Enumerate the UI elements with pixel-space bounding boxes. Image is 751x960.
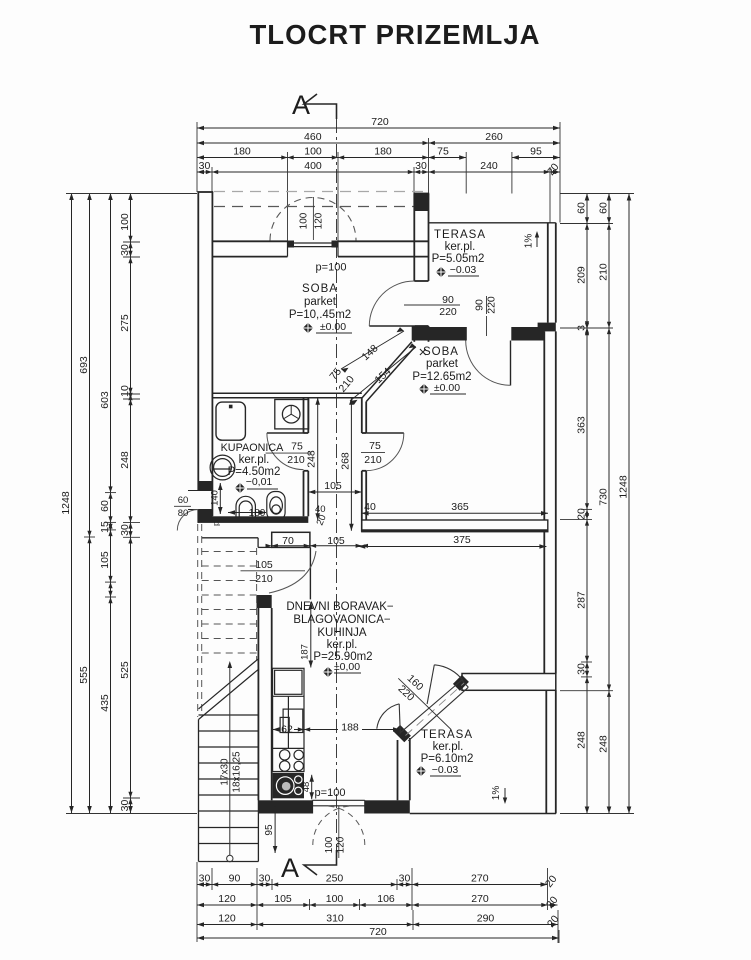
- dimension row top 30/400/30/240: [197, 171, 560, 173]
- svg-text:±0.00: ±0.00: [320, 321, 346, 333]
- door leaf swing upper: [427, 665, 434, 704]
- svg-text:1%: 1%: [524, 234, 535, 249]
- terrace top edge: [429, 222, 556, 224]
- svg-text:ker.pl.: ker.pl.: [445, 241, 476, 253]
- wall terrace bottom (90/220 opening): [429, 327, 467, 341]
- svg-text:30: 30: [259, 872, 271, 884]
- bidet: [267, 492, 285, 521]
- dimension column left 693/555: [89, 193, 91, 813]
- svg-text:P=10,.45m2: P=10,.45m2: [289, 309, 351, 321]
- svg-text:30: 30: [399, 872, 411, 884]
- svg-text:KUHINJA: KUHINJA: [317, 627, 367, 639]
- svg-text:105: 105: [274, 893, 292, 905]
- dim 187 kitchen: [310, 602, 312, 668]
- svg-text:1%: 1%: [491, 786, 502, 801]
- svg-text:40: 40: [364, 501, 376, 513]
- bathtub: [216, 402, 245, 440]
- svg-text:KUPAONICA: KUPAONICA: [221, 442, 285, 454]
- svg-text:105: 105: [324, 480, 342, 492]
- toilet: [236, 496, 255, 521]
- svg-text:100: 100: [324, 836, 335, 853]
- svg-text:400: 400: [304, 160, 322, 172]
- svg-text:120: 120: [336, 836, 347, 853]
- svg-text:693: 693: [78, 356, 90, 374]
- svg-text:±0,00: ±0,00: [334, 661, 360, 673]
- svg-text:210: 210: [255, 573, 273, 585]
- svg-text:220: 220: [486, 296, 498, 314]
- svg-text:TERASA: TERASA: [421, 729, 473, 741]
- svg-text:603: 603: [99, 391, 111, 409]
- door 90/220 of front room: leaf + arc: [369, 325, 414, 327]
- svg-text:248: 248: [306, 450, 318, 468]
- dim 248 vertical in hall: [317, 398, 319, 520]
- svg-text:209: 209: [575, 266, 587, 284]
- svg-text:250: 250: [326, 872, 344, 884]
- svg-text:1248: 1248: [60, 491, 72, 515]
- svg-text:270: 270: [471, 872, 489, 884]
- dimension column right 1248: [628, 194, 630, 814]
- dimension row bottom row3: [197, 924, 558, 926]
- svg-text:BLAGOVAONICA−: BLAGOVAONICA−: [293, 614, 391, 626]
- dimension row bottom row4 720: [197, 937, 559, 939]
- svg-text:188: 188: [341, 721, 359, 733]
- svg-text:p=100: p=100: [315, 787, 346, 799]
- dimension row bottom row1: [197, 884, 548, 886]
- svg-text:60: 60: [597, 202, 609, 214]
- svg-text:120: 120: [314, 212, 325, 229]
- svg-text:p=100: p=100: [316, 262, 347, 274]
- wall diagonal (hall / soba): [362, 342, 416, 402]
- svg-text:−0.03: −0.03: [432, 764, 459, 776]
- svg-text:75: 75: [291, 441, 303, 453]
- svg-text:248: 248: [597, 735, 609, 753]
- svg-text:90: 90: [442, 294, 454, 306]
- bathroom door: leaf + arc: [267, 432, 304, 434]
- dimension column right detail: [586, 194, 588, 814]
- section mark A top: [292, 90, 337, 120]
- svg-text:730: 730: [597, 488, 609, 506]
- svg-text:220: 220: [439, 306, 457, 318]
- svg-text:106: 106: [377, 893, 395, 905]
- wall middle (under soba 12.65): [362, 520, 548, 532]
- wall segment 70 under hall: [272, 532, 310, 547]
- wall bathroom bottom (solid): [198, 516, 308, 523]
- svg-text:60: 60: [178, 495, 189, 506]
- dim 48 stove: [311, 775, 313, 800]
- svg-text:180: 180: [249, 508, 266, 519]
- kitchen sink (black): [273, 773, 304, 799]
- svg-text:80: 80: [178, 508, 189, 519]
- svg-text:30: 30: [199, 872, 211, 884]
- svg-text:30: 30: [119, 800, 131, 812]
- svg-text:720: 720: [369, 926, 387, 938]
- svg-text:100: 100: [119, 213, 131, 231]
- svg-text:120: 120: [218, 912, 236, 924]
- svg-text:±0.00: ±0.00: [434, 382, 460, 394]
- svg-text:210: 210: [364, 454, 382, 466]
- wash basin: [210, 455, 235, 480]
- dim 180 bathroom: [228, 512, 266, 514]
- svg-text:180: 180: [374, 145, 392, 157]
- door east: leaf + arc: [366, 432, 404, 434]
- svg-text:−0.03: −0.03: [450, 264, 477, 276]
- svg-text:DNEVNI BORAVAK−: DNEVNI BORAVAK−: [286, 601, 394, 613]
- door 105/210 hall to living room: leaf + arc: [309, 547, 311, 599]
- svg-text:30: 30: [199, 160, 211, 172]
- diagonal dim 148: [341, 331, 404, 369]
- svg-text:48: 48: [301, 782, 312, 793]
- svg-text:435: 435: [99, 694, 111, 712]
- svg-text:180: 180: [233, 145, 251, 157]
- svg-text:ker.pl.: ker.pl.: [433, 741, 464, 753]
- diagonal french door 160/220 (closed panel strip): [400, 680, 468, 741]
- dimension column right 60/210/730/248: [608, 194, 610, 814]
- svg-text:140: 140: [210, 490, 221, 506]
- dimension row top 720: [197, 127, 560, 129]
- svg-text:−0,01: −0,01: [246, 476, 273, 488]
- wall niche 60/80 in left wall: [188, 491, 212, 510]
- svg-text:248: 248: [575, 731, 587, 749]
- svg-text:210: 210: [597, 263, 609, 281]
- svg-text:95: 95: [530, 145, 542, 157]
- stairs upper flight (dashed, above section): [198, 524, 257, 717]
- svg-text:18x16,25: 18x16,25: [232, 751, 243, 793]
- kitchen counter: [273, 668, 304, 771]
- svg-text:75: 75: [437, 145, 449, 157]
- wall niche 60/80 black flanks: [199, 481, 212, 491]
- svg-text:275: 275: [119, 314, 131, 332]
- svg-text:100: 100: [326, 893, 344, 905]
- diagonal dim 154: [350, 347, 416, 401]
- svg-text:525: 525: [119, 661, 131, 679]
- dashed centreline of door panel: [406, 683, 465, 736]
- wall living room west: [257, 595, 272, 608]
- svg-text:248: 248: [119, 451, 131, 469]
- dims 70 and 105 at hall bottom: [272, 545, 362, 547]
- wall top porch with window: [212, 241, 428, 256]
- dim 62 and 188 kitchen: [273, 729, 401, 731]
- svg-text:ker.pl.: ker.pl.: [327, 639, 358, 651]
- dimension column left 1248: [71, 193, 73, 813]
- dimension column left detail: [130, 193, 132, 813]
- dimension column left 603/60/15/105/435: [110, 193, 112, 813]
- svg-text:ker.pl.: ker.pl.: [239, 454, 270, 466]
- svg-text:100: 100: [304, 145, 322, 157]
- svg-text:105: 105: [99, 551, 111, 569]
- svg-text:60: 60: [99, 500, 111, 512]
- stairs lower flight: [199, 667, 259, 862]
- svg-text:268: 268: [339, 452, 351, 470]
- svg-text:90: 90: [474, 299, 486, 311]
- svg-text:210: 210: [287, 454, 305, 466]
- dashed swing arcs bottom window: [313, 806, 352, 845]
- stairs break lines: [199, 658, 259, 719]
- svg-text:720: 720: [371, 116, 389, 128]
- wall terrace bottom top: [462, 674, 556, 691]
- svg-text:365: 365: [451, 501, 469, 513]
- svg-text:1248: 1248: [617, 475, 629, 499]
- svg-text:parket: parket: [426, 358, 459, 370]
- window 100 in porch wall: [288, 241, 339, 256]
- svg-text:363: 363: [575, 416, 587, 434]
- wall living room bottom with window p=100: [258, 800, 312, 813]
- dashed swing arc of opening above (100/120): [270, 198, 356, 241]
- svg-text:120: 120: [218, 893, 236, 905]
- svg-text:260: 260: [485, 131, 503, 143]
- wall bathroom top (soba bottom): [212, 393, 361, 398]
- dim 140 bathroom: [219, 483, 221, 514]
- svg-text:105: 105: [327, 535, 345, 547]
- dim 105 between bathroom and hall walls: [308, 491, 362, 493]
- dim 95 under wall: [274, 806, 276, 853]
- svg-text:30: 30: [415, 160, 427, 172]
- dimension row top 460/260: [197, 142, 560, 144]
- section cut line A-A (dash-dot centreline): [336, 119, 338, 850]
- svg-text:375: 375: [453, 534, 471, 546]
- svg-text:187: 187: [300, 644, 311, 660]
- wall hall east (door 75/210): [362, 398, 366, 532]
- door arc of niche: [177, 510, 198, 531]
- svg-text:30: 30: [119, 244, 131, 256]
- label 100/120 rotated bottom: [338, 806, 340, 858]
- wall bathroom east (door 75/210): [304, 398, 309, 517]
- svg-text:240: 240: [480, 160, 498, 172]
- svg-text:287: 287: [575, 591, 587, 609]
- svg-text:SOBA: SOBA: [423, 346, 459, 358]
- svg-text:30: 30: [575, 663, 587, 675]
- svg-text:parket: parket: [304, 296, 337, 308]
- washing machine: [275, 400, 309, 429]
- dim 365 above middle wall: [362, 512, 548, 514]
- svg-text:75: 75: [369, 440, 381, 452]
- svg-text:95: 95: [264, 824, 275, 836]
- svg-text:40: 40: [315, 504, 326, 515]
- svg-text:90: 90: [229, 872, 241, 884]
- label 160/220 rotated on leader: [398, 678, 451, 729]
- wall right exterior: [544, 331, 556, 813]
- dimension row bottom row2: [197, 904, 558, 906]
- svg-text:290: 290: [477, 912, 495, 924]
- svg-text:TERASA: TERASA: [434, 229, 486, 241]
- svg-text:17x30: 17x30: [220, 758, 231, 786]
- stairs centre line with circle: [229, 663, 231, 855]
- landing edge lines: [202, 538, 272, 548]
- svg-text:270: 270: [471, 893, 489, 905]
- door 90/220 terrace: leaf + arc: [510, 341, 512, 386]
- svg-text:70: 70: [282, 535, 294, 547]
- svg-text:105: 105: [255, 559, 273, 571]
- svg-text:TLOCRT PRIZEMLJA: TLOCRT PRIZEMLJA: [250, 19, 541, 50]
- svg-text:555: 555: [78, 666, 90, 684]
- svg-text:10: 10: [119, 385, 131, 397]
- svg-text:SOBA: SOBA: [302, 283, 338, 295]
- svg-text:460: 460: [304, 131, 322, 143]
- label 100/120 rotated with leader: [312, 197, 314, 240]
- door leaf swing lower: [399, 704, 400, 734]
- svg-text:310: 310: [326, 912, 344, 924]
- section mark A bottom: [281, 850, 337, 883]
- svg-text:100: 100: [299, 212, 310, 229]
- dim 375 below middle wall: [358, 546, 546, 548]
- svg-text:A: A: [292, 90, 310, 120]
- wall right of terrace top: [548, 223, 556, 323]
- dashed overhang lines above porch: [214, 191, 426, 193]
- wall living east (by terrace): [394, 725, 411, 742]
- svg-text:30: 30: [119, 524, 131, 536]
- svg-text:60: 60: [575, 202, 587, 214]
- wall left exterior: [198, 192, 214, 523]
- dim 268 vertical in soba12: [350, 398, 352, 531]
- dimension row top 180/100/180/75: [197, 157, 466, 159]
- witness lines: [66, 193, 197, 195]
- terrace slab edge bottom: [410, 813, 556, 815]
- wall right of front room (with door 90/220): [414, 194, 430, 342]
- svg-text:A: A: [281, 853, 299, 883]
